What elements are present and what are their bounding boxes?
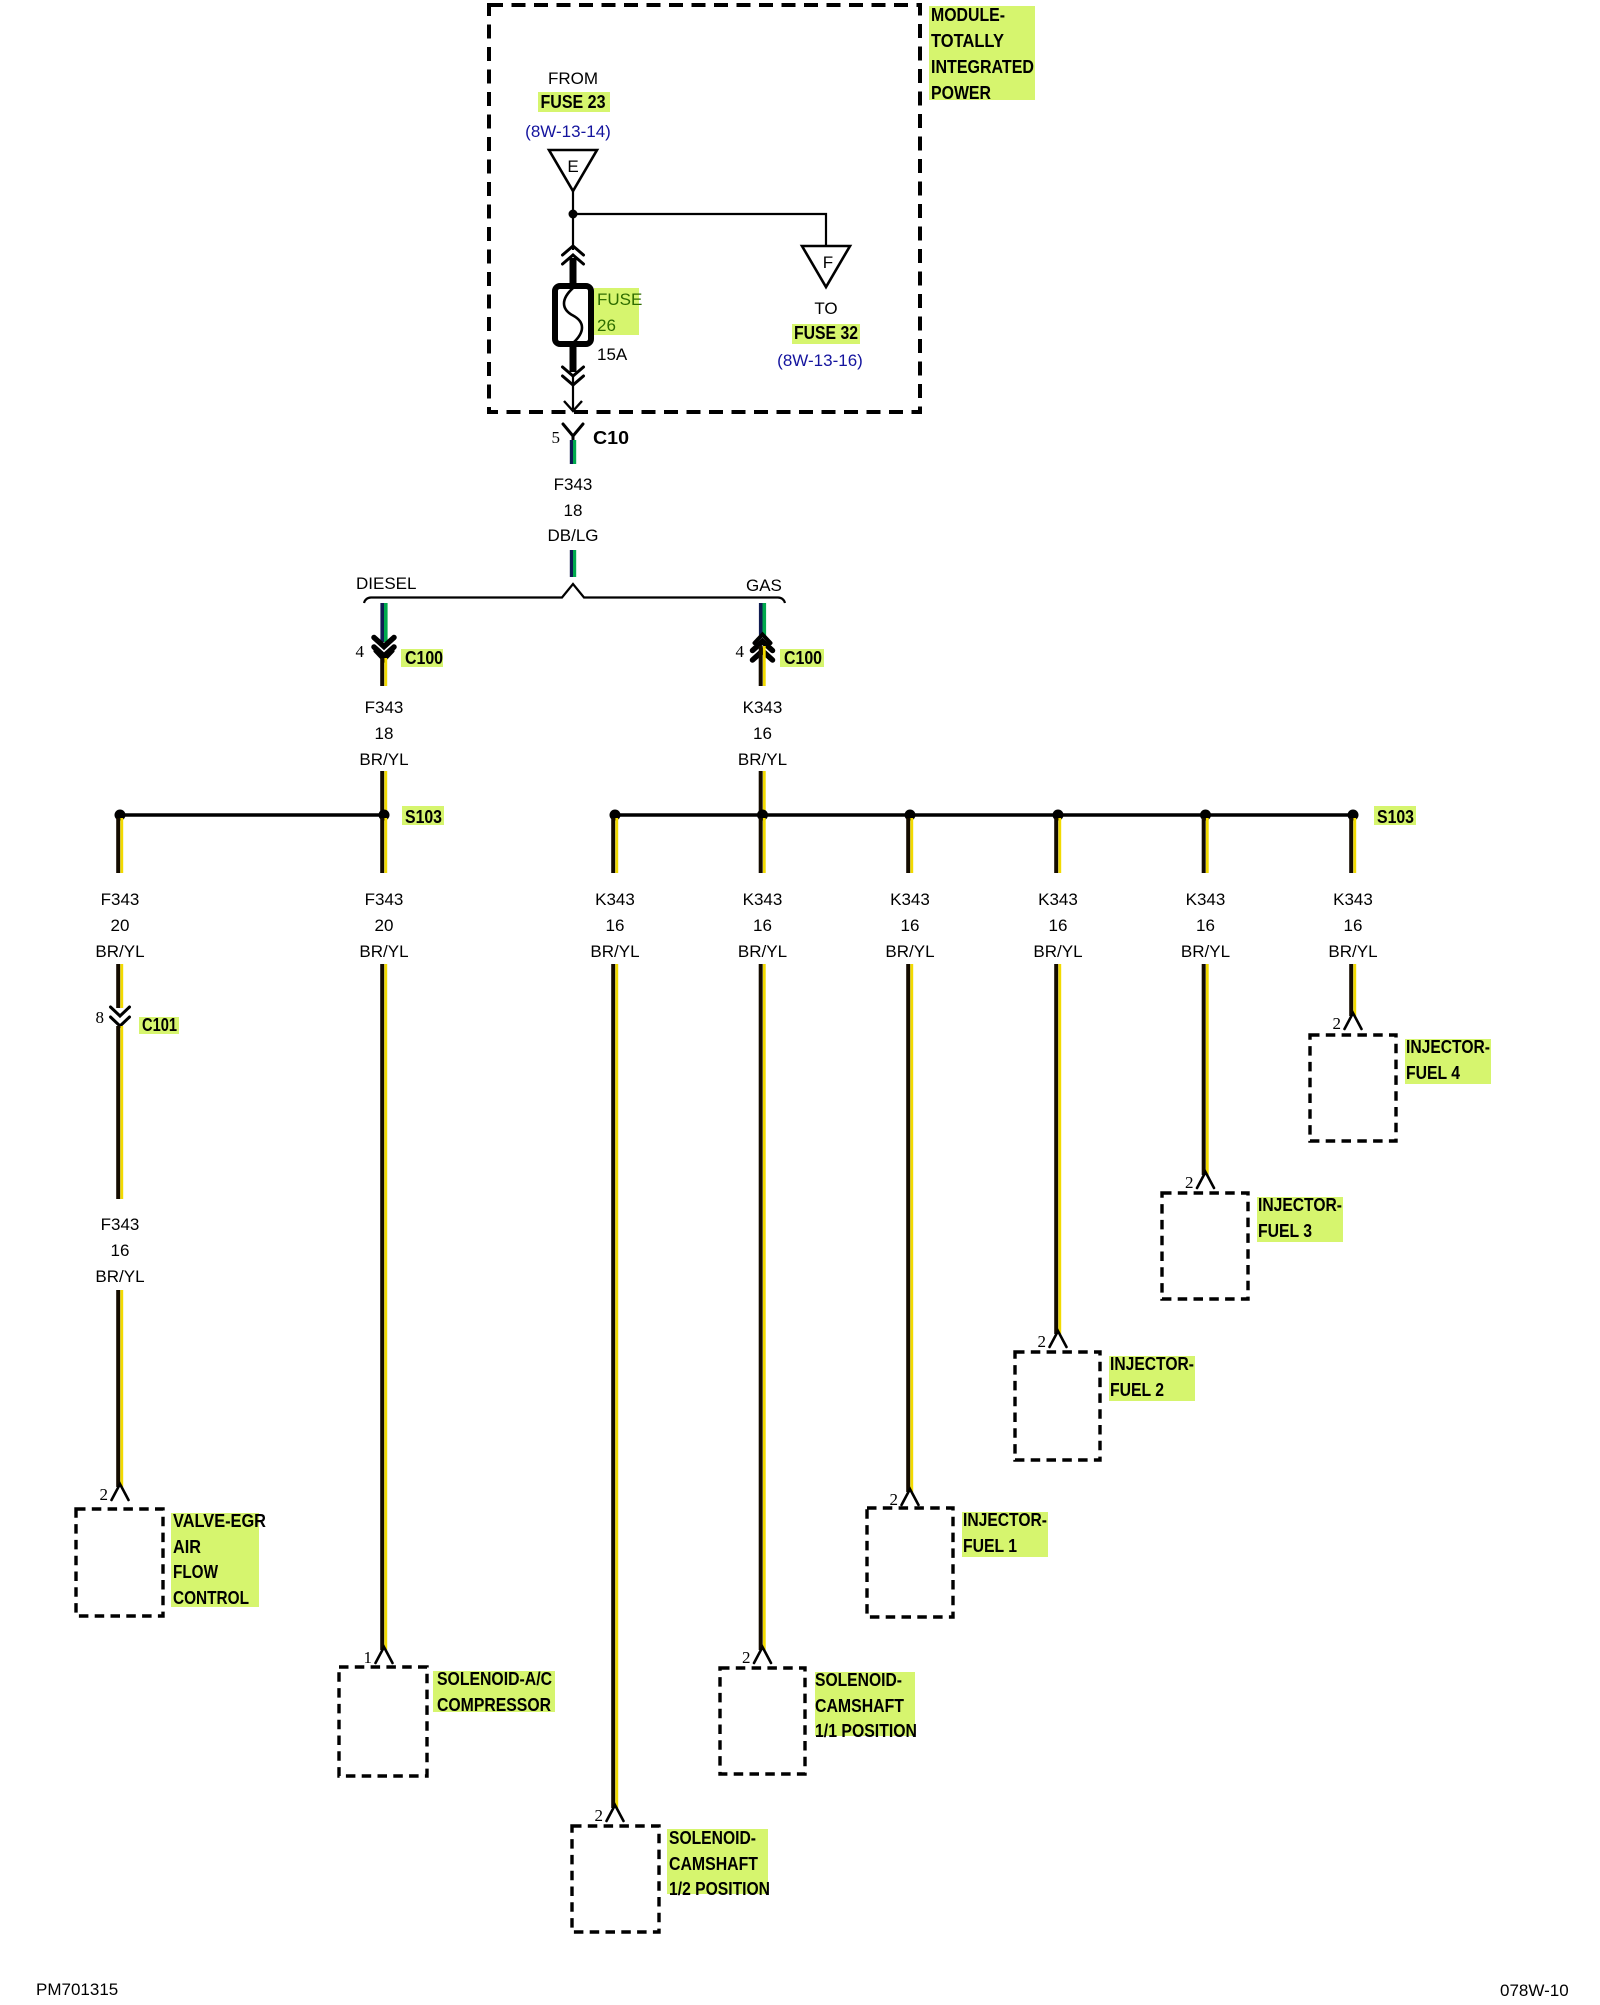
svg-text:2: 2 bbox=[1038, 1332, 1047, 1351]
svg-text:K343: K343 bbox=[1038, 890, 1078, 909]
connector fork pin 2 at INJECTOR-FUEL 3 bbox=[1185, 1172, 1214, 1192]
label: F343 20 BR/YL (SOLENOID-A/C COMPRESSOR) bbox=[359, 890, 408, 961]
svg-text:16: 16 bbox=[1049, 916, 1068, 935]
svg-text:C10: C10 bbox=[593, 428, 629, 448]
label: DIESEL bbox=[356, 574, 416, 593]
wire: SOLENOID-CAMSHAFT 1/2 POSITION drop to component bbox=[613, 964, 617, 1808]
svg-text:(8W-13-14): (8W-13-14) bbox=[525, 122, 611, 141]
svg-text:15A: 15A bbox=[597, 345, 628, 364]
wire: INJECTOR-FUEL 2 drop to component bbox=[1056, 964, 1060, 1334]
component box: INJECTOR-FUEL 3 bbox=[1162, 1193, 1248, 1299]
connector fork pin 1 at SOLENOID-A/C COMPRESSOR bbox=[364, 1647, 393, 1667]
svg-text:C101: C101 bbox=[142, 1015, 177, 1035]
label: K343 16 BR/YL (INJECTOR-FUEL 4) bbox=[1328, 890, 1377, 961]
node: gas splice dot 6 bbox=[1348, 810, 1359, 821]
wire F343 18 BR/YL diesel: C100 to label bbox=[382, 658, 386, 686]
svg-text:16: 16 bbox=[1196, 916, 1215, 935]
svg-text:FUEL 3: FUEL 3 bbox=[1258, 1221, 1312, 1241]
svg-text:4: 4 bbox=[356, 642, 365, 661]
svg-text:TO: TO bbox=[814, 299, 837, 318]
svg-text:BR/YL: BR/YL bbox=[95, 1267, 144, 1286]
svg-text:1/2 POSITION: 1/2 POSITION bbox=[669, 1879, 770, 1899]
label: F343 18 DB/LG bbox=[547, 475, 598, 545]
wire: junction to connector F bbox=[573, 214, 826, 247]
svg-text:BR/YL: BR/YL bbox=[590, 942, 639, 961]
node: gas splice dot 3 bbox=[905, 810, 916, 821]
component box: SOLENOID-CAMSHAFT 1/2 POSITION bbox=[572, 1826, 659, 1932]
node: junction dot bbox=[569, 210, 578, 219]
svg-text:2: 2 bbox=[1185, 1173, 1194, 1192]
svg-text:16: 16 bbox=[606, 916, 625, 935]
label: K343 16 BR/YL (INJECTOR-FUEL 1) bbox=[885, 890, 934, 961]
label: SOLENOID-CAMSHAFT 1/1 POSITION bbox=[815, 1670, 917, 1741]
svg-text:4: 4 bbox=[736, 642, 745, 661]
label: footer 078W-10 bbox=[1500, 1981, 1569, 2000]
node: gas splice dot 2 bbox=[757, 810, 768, 821]
component box: SOLENOID-A/C COMPRESSOR bbox=[339, 1667, 427, 1776]
svg-text:K343: K343 bbox=[1333, 890, 1373, 909]
svg-text:K343: K343 bbox=[743, 698, 783, 717]
connector F (to fuse 32) bbox=[802, 246, 850, 287]
connector fork pin 2 at INJECTOR-FUEL 4 bbox=[1333, 1013, 1362, 1033]
wire: diesel/gas split brace bbox=[364, 584, 785, 603]
node: splice dot right (diesel feed) bbox=[379, 810, 390, 821]
connector C100 diesel pin 4 bbox=[356, 638, 444, 669]
svg-text:INJECTOR-: INJECTOR- bbox=[1406, 1037, 1490, 1057]
fuse F26 (15A) bbox=[555, 286, 591, 344]
svg-text:FUSE: FUSE bbox=[597, 290, 642, 309]
svg-text:16: 16 bbox=[753, 724, 772, 743]
svg-text:BR/YL: BR/YL bbox=[738, 750, 787, 769]
connector fork pin 2 at SOLENOID-CAMSHAFT 1/2 POSITION bbox=[595, 1805, 624, 1825]
svg-text:SOLENOID-: SOLENOID- bbox=[815, 1670, 902, 1690]
svg-text:(8W-13-16): (8W-13-16) bbox=[777, 351, 863, 370]
svg-text:K343: K343 bbox=[890, 890, 930, 909]
wire: split to C100 gas (DB/LG) bbox=[761, 603, 765, 636]
label: F343 16 BR/YL (egr drop) bbox=[95, 1215, 144, 1286]
label: FUSE 26 15A bbox=[594, 288, 642, 364]
svg-text:S103: S103 bbox=[1377, 807, 1414, 827]
svg-text:BR/YL: BR/YL bbox=[95, 942, 144, 961]
wire: splice to INJECTOR-FUEL 4 label (K343) bbox=[1351, 818, 1355, 873]
component box: SOLENOID-CAMSHAFT 1/1 POSITION bbox=[720, 1668, 805, 1774]
wire: diesel label to splice S103 bbox=[382, 771, 386, 812]
svg-text:FUSE 23: FUSE 23 bbox=[541, 92, 606, 112]
label: S103 (diesel) bbox=[402, 806, 444, 827]
component box: INJECTOR-FUEL 1 bbox=[867, 1508, 953, 1617]
svg-text:C100: C100 bbox=[405, 648, 443, 668]
svg-text:K343: K343 bbox=[595, 890, 635, 909]
svg-text:PM701315: PM701315 bbox=[36, 1980, 118, 1999]
svg-text:TOTALLY: TOTALLY bbox=[931, 31, 1004, 51]
svg-text:BR/YL: BR/YL bbox=[1033, 942, 1082, 961]
svg-text:CAMSHAFT: CAMSHAFT bbox=[669, 1854, 758, 1874]
wire: INJECTOR-FUEL 3 drop to component bbox=[1204, 964, 1208, 1175]
wire: splice to SOLENOID-CAMSHAFT 1/1 POSITION label (K343) bbox=[761, 818, 765, 873]
svg-text:8: 8 bbox=[96, 1008, 105, 1027]
wire: splice to INJECTOR-FUEL 1 label (K343) bbox=[908, 818, 912, 873]
connector fork pin 2 at VALVE-EGR AIR FLOW CONTROL bbox=[100, 1484, 129, 1504]
wire: splice to INJECTOR-FUEL 2 label (K343) bbox=[1056, 818, 1060, 873]
wire: L1 label to C101 bbox=[118, 964, 122, 1008]
node: splice dot left bbox=[115, 810, 126, 821]
connector fork pin 2 at INJECTOR-FUEL 1 bbox=[890, 1489, 919, 1509]
label: F343 18 BR/YL (diesel) bbox=[359, 698, 408, 769]
svg-text:1/1 POSITION: 1/1 POSITION bbox=[815, 1721, 917, 1741]
svg-text:GAS: GAS bbox=[746, 576, 782, 595]
svg-text:2: 2 bbox=[742, 1648, 751, 1667]
svg-text:DB/LG: DB/LG bbox=[547, 526, 598, 545]
svg-text:E: E bbox=[567, 157, 578, 176]
svg-text:16: 16 bbox=[753, 916, 772, 935]
wire: SOLENOID-A/C COMPRESSOR drop to component bbox=[382, 964, 386, 1650]
svg-text:FUEL 1: FUEL 1 bbox=[963, 1536, 1017, 1556]
svg-text:18: 18 bbox=[375, 724, 394, 743]
label: VALVE-EGR AIR FLOW CONTROL bbox=[171, 1511, 266, 1608]
svg-text:F343: F343 bbox=[101, 1215, 140, 1234]
svg-text:2: 2 bbox=[100, 1485, 109, 1504]
wire: gas label to splice S103 bbox=[761, 771, 765, 812]
svg-text:1: 1 bbox=[364, 1648, 373, 1667]
svg-text:18: 18 bbox=[564, 501, 583, 520]
label: K343 16 BR/YL (INJECTOR-FUEL 2) bbox=[1033, 890, 1082, 961]
splice S103 (gas side) bar bbox=[615, 813, 1353, 817]
wire: splice to SOLENOID-CAMSHAFT 1/2 POSITION label (K343) bbox=[613, 818, 617, 873]
wire: splice to VALVE-EGR AIR FLOW CONTROL label (F343) bbox=[118, 818, 122, 873]
connector C100 gas pin 4 bbox=[736, 635, 825, 669]
label: K343 16 BR/YL (SOLENOID-CAMSHAFT 1/1 POSITION) bbox=[738, 890, 787, 961]
svg-text:078W-10: 078W-10 bbox=[1500, 1981, 1569, 2000]
svg-text:FROM: FROM bbox=[548, 69, 598, 88]
svg-text:C100: C100 bbox=[784, 648, 822, 668]
svg-text:MODULE-: MODULE- bbox=[931, 5, 1005, 25]
label: INJECTOR-FUEL 4 bbox=[1405, 1037, 1491, 1084]
wire: INJECTOR-FUEL 1 drop to component bbox=[908, 964, 912, 1492]
svg-text:DIESEL: DIESEL bbox=[356, 574, 416, 593]
svg-text:2: 2 bbox=[1333, 1014, 1342, 1033]
node: gas splice dot 1 bbox=[610, 810, 621, 821]
wire: INJECTOR-FUEL 4 drop to component bbox=[1351, 964, 1355, 1016]
connector C101 pin 8 bbox=[96, 1007, 180, 1035]
connector C10 pin 5 bbox=[552, 424, 630, 448]
svg-text:AIR: AIR bbox=[173, 1537, 201, 1557]
svg-text:FUEL 2: FUEL 2 bbox=[1110, 1380, 1164, 1400]
label: INJECTOR-FUEL 1 bbox=[962, 1510, 1048, 1557]
svg-text:BR/YL: BR/YL bbox=[1181, 942, 1230, 961]
label: MODULE-TOTALLY INTEGRATED POWER bbox=[929, 5, 1035, 103]
connector fork pin 2 at SOLENOID-CAMSHAFT 1/1 POSITION bbox=[742, 1647, 771, 1667]
label: S103 (gas) bbox=[1374, 806, 1416, 827]
node: gas splice dot 4 bbox=[1053, 810, 1064, 821]
svg-text:INJECTOR-: INJECTOR- bbox=[1110, 1354, 1194, 1374]
svg-text:16: 16 bbox=[1344, 916, 1363, 935]
svg-text:16: 16 bbox=[111, 1241, 130, 1260]
label: K343 16 BR/YL (INJECTOR-FUEL 3) bbox=[1181, 890, 1230, 961]
component box: INJECTOR-FUEL 2 bbox=[1015, 1352, 1100, 1460]
svg-text:SOLENOID-A/C: SOLENOID-A/C bbox=[437, 1669, 552, 1689]
svg-text:F343: F343 bbox=[554, 475, 593, 494]
label: K343 16 BR/YL (SOLENOID-CAMSHAFT 1/2 POSITION) bbox=[590, 890, 639, 961]
svg-text:CONTROL: CONTROL bbox=[173, 1588, 249, 1608]
wire: label to EGR valve fork bbox=[118, 1290, 122, 1487]
wire: split to C100 diesel (DB/LG) bbox=[382, 603, 386, 642]
svg-text:FUSE 32: FUSE 32 bbox=[794, 323, 858, 343]
svg-text:COMPRESSOR: COMPRESSOR bbox=[437, 1695, 551, 1715]
label: SOLENOID-CAMSHAFT 1/2 POSITION bbox=[667, 1828, 770, 1899]
svg-text:INTEGRATED: INTEGRATED bbox=[931, 57, 1034, 77]
label: TO FUSE 32 (8W-13-16) bbox=[777, 299, 863, 370]
svg-text:FLOW: FLOW bbox=[173, 1562, 218, 1582]
svg-text:BR/YL: BR/YL bbox=[359, 942, 408, 961]
label: GAS bbox=[746, 576, 782, 595]
svg-text:BR/YL: BR/YL bbox=[359, 750, 408, 769]
svg-text:2: 2 bbox=[890, 1490, 899, 1509]
svg-text:20: 20 bbox=[111, 916, 130, 935]
svg-text:S103: S103 bbox=[405, 807, 442, 827]
wire K343 16 BR/YL gas: C100 to label bbox=[761, 646, 765, 686]
label: FROM FUSE 23 (8W-13-14) bbox=[525, 69, 611, 141]
svg-text:F343: F343 bbox=[365, 698, 404, 717]
label: K343 16 BR/YL (gas) bbox=[738, 698, 787, 769]
svg-text:INJECTOR-: INJECTOR- bbox=[1258, 1195, 1342, 1215]
wire: E to junction bbox=[572, 191, 574, 214]
svg-text:26: 26 bbox=[597, 316, 616, 335]
label: F343 20 BR/YL (VALVE-EGR AIR FLOW CONTROL) bbox=[95, 890, 144, 961]
wire: fuse 26 to module edge (chevrons down, arrowhead) bbox=[563, 344, 584, 411]
component box: VALVE-EGR AIR FLOW CONTROL bbox=[76, 1509, 163, 1616]
component box: INJECTOR-FUEL 4 bbox=[1310, 1035, 1396, 1141]
svg-text:POWER: POWER bbox=[931, 83, 991, 103]
node: gas splice dot 5 bbox=[1200, 810, 1211, 821]
svg-text:20: 20 bbox=[375, 916, 394, 935]
wire: splice to INJECTOR-FUEL 3 label (K343) bbox=[1204, 818, 1208, 873]
svg-text:5: 5 bbox=[552, 428, 561, 447]
svg-text:BR/YL: BR/YL bbox=[738, 942, 787, 961]
wire: SOLENOID-CAMSHAFT 1/1 POSITION drop to component bbox=[761, 964, 765, 1650]
label: INJECTOR-FUEL 2 bbox=[1109, 1354, 1195, 1401]
wire: C101 to F343 16 label bbox=[118, 1026, 122, 1199]
svg-text:INJECTOR-: INJECTOR- bbox=[963, 1510, 1047, 1530]
svg-text:2: 2 bbox=[595, 1806, 604, 1825]
svg-text:FUEL 4: FUEL 4 bbox=[1406, 1063, 1460, 1083]
svg-text:F343: F343 bbox=[101, 890, 140, 909]
splice S103 (diesel side) bar bbox=[120, 813, 384, 817]
label: SOLENOID-A/C COMPRESSOR bbox=[433, 1669, 555, 1715]
connector E (from fuse 23) bbox=[549, 150, 597, 191]
svg-text:F: F bbox=[823, 253, 833, 272]
svg-text:CAMSHAFT: CAMSHAFT bbox=[815, 1696, 904, 1716]
svg-text:BR/YL: BR/YL bbox=[1328, 942, 1377, 961]
svg-text:BR/YL: BR/YL bbox=[885, 942, 934, 961]
label: footer PM701315 bbox=[36, 1980, 118, 1999]
module box: TIPM outline bbox=[489, 5, 920, 412]
svg-text:16: 16 bbox=[901, 916, 920, 935]
wire: splice to SOLENOID-A/C COMPRESSOR label (F343) bbox=[382, 818, 386, 873]
wire F343 18 DB/LG: C10 to split bbox=[571, 440, 574, 577]
svg-text:K343: K343 bbox=[743, 890, 783, 909]
svg-text:SOLENOID-: SOLENOID- bbox=[669, 1828, 756, 1848]
wire: junction to fuse 26 (chevrons up) bbox=[563, 214, 584, 288]
svg-text:VALVE-EGR: VALVE-EGR bbox=[173, 1511, 266, 1531]
connector fork pin 2 at INJECTOR-FUEL 2 bbox=[1038, 1331, 1067, 1351]
label: INJECTOR-FUEL 3 bbox=[1257, 1195, 1343, 1242]
svg-text:K343: K343 bbox=[1186, 890, 1226, 909]
svg-text:F343: F343 bbox=[365, 890, 404, 909]
